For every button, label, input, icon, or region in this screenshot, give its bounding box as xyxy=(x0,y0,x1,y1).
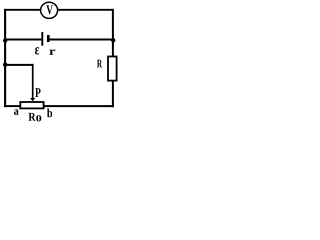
rheostat R0 body xyxy=(20,102,43,108)
label ε (emf) xyxy=(35,47,39,54)
label R0 letter R xyxy=(29,113,36,121)
wire right vertical upper xyxy=(112,9,114,57)
voltmeter V xyxy=(41,2,58,18)
label P (wiper) xyxy=(35,88,40,97)
node junction dot at right wire / battery branch xyxy=(111,38,115,42)
label V (voltmeter face) xyxy=(46,5,53,14)
wire battery branch left xyxy=(4,39,41,41)
wiper arrowhead xyxy=(30,98,35,101)
wire top-left horizontal xyxy=(4,9,41,11)
wiper arrow shaft xyxy=(32,64,34,99)
battery cell: long positive plate xyxy=(41,32,43,46)
node junction dot at left wire / battery branch xyxy=(3,38,7,42)
label R0 subscript 0 xyxy=(36,115,41,121)
label a (terminal) xyxy=(14,109,19,115)
battery cell: short negative plate xyxy=(47,35,50,42)
wire top-right horizontal xyxy=(58,9,114,11)
wire bottom-right horizontal xyxy=(44,105,114,107)
wire left vertical xyxy=(4,9,6,107)
label R xyxy=(97,60,102,68)
label b (terminal) xyxy=(47,109,52,118)
node junction dot at left wire / wiper branch xyxy=(3,62,7,66)
label r (internal resistance) xyxy=(49,49,55,55)
resistor R body xyxy=(108,57,117,81)
wire right vertical lower xyxy=(112,81,114,108)
wire bottom-left horizontal xyxy=(4,105,20,107)
wire wiper branch horizontal xyxy=(4,64,34,66)
wire battery branch right xyxy=(50,39,114,41)
